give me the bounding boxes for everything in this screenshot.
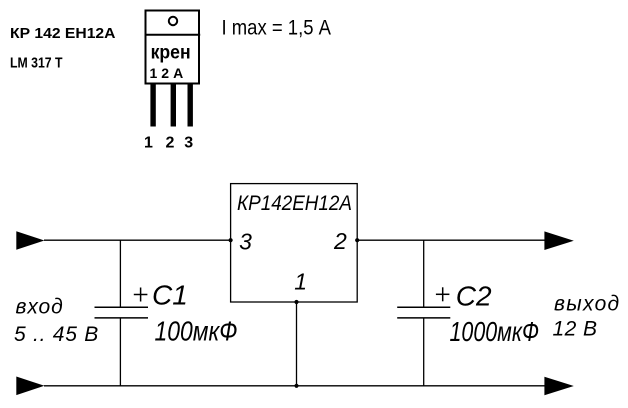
wire C2 top lead	[423, 240, 425, 307]
wire bottom rail	[44, 385, 545, 387]
IC package leg pin 3	[188, 85, 193, 127]
wire top-right: regulator pin 2 to output arrow	[358, 239, 545, 241]
svg-text:100мкФ: 100мкФ	[155, 316, 238, 347]
output arrow bottom-right	[544, 377, 573, 396]
IC package leg pin 1	[150, 85, 155, 127]
junction dot pin 1 wire at bottom rail	[294, 384, 298, 388]
svg-text:вход: вход	[16, 296, 64, 319]
svg-text:2: 2	[333, 228, 347, 254]
IC package mounting hole	[169, 17, 177, 25]
svg-text:1: 1	[144, 135, 153, 152]
capacitor C1 top plate	[95, 306, 149, 308]
svg-text:C1: C1	[152, 279, 188, 310]
junction dot pin 3	[229, 238, 233, 242]
wire pin 1 to bottom rail	[296, 302, 298, 386]
svg-text:крен: крен	[151, 43, 191, 64]
regulator U1 box	[231, 184, 358, 302]
wire C2 bottom lead	[423, 318, 425, 386]
svg-text:3: 3	[239, 228, 252, 254]
svg-text:КР 142 ЕН12А: КР 142 ЕН12А	[10, 25, 116, 42]
plus sign C2 polarity	[436, 287, 450, 301]
junction dot pin 1 at box	[294, 300, 298, 304]
svg-text:5 .. 45 В: 5 .. 45 В	[14, 323, 99, 346]
IC package leg pin 2	[171, 85, 176, 127]
svg-text:2: 2	[165, 135, 174, 152]
svg-text:LM 317 T: LM 317 T	[10, 55, 63, 72]
svg-text:выход: выход	[554, 293, 620, 316]
junction dot pin 2	[355, 238, 359, 242]
capacitor C2 top plate	[397, 306, 450, 308]
input arrow top-left	[16, 231, 44, 250]
svg-text:12А: 12А	[150, 65, 188, 81]
svg-text:I max = 1,5 А: I max = 1,5 А	[222, 16, 332, 39]
svg-text:1000мкФ: 1000мкФ	[450, 316, 540, 347]
plus sign C1 polarity	[134, 288, 148, 302]
wire C1 bottom lead	[119, 318, 121, 386]
IC package tab divider line	[145, 34, 201, 36]
capacitor C2 bottom plate	[397, 317, 450, 319]
svg-text:3: 3	[184, 135, 193, 152]
output arrow top-right	[544, 231, 573, 250]
svg-text:КР142ЕН12А: КР142ЕН12А	[237, 191, 352, 215]
svg-text:1: 1	[294, 268, 307, 294]
input arrow bottom-left	[16, 377, 44, 396]
svg-text:C2: C2	[456, 280, 492, 311]
wire C1 top lead	[119, 240, 121, 307]
wire top-left: arrow to regulator pin 3	[44, 239, 230, 241]
IC package U1 body outline	[146, 11, 200, 84]
svg-text:12 В: 12 В	[553, 318, 598, 341]
capacitor C1 bottom plate	[95, 317, 149, 319]
